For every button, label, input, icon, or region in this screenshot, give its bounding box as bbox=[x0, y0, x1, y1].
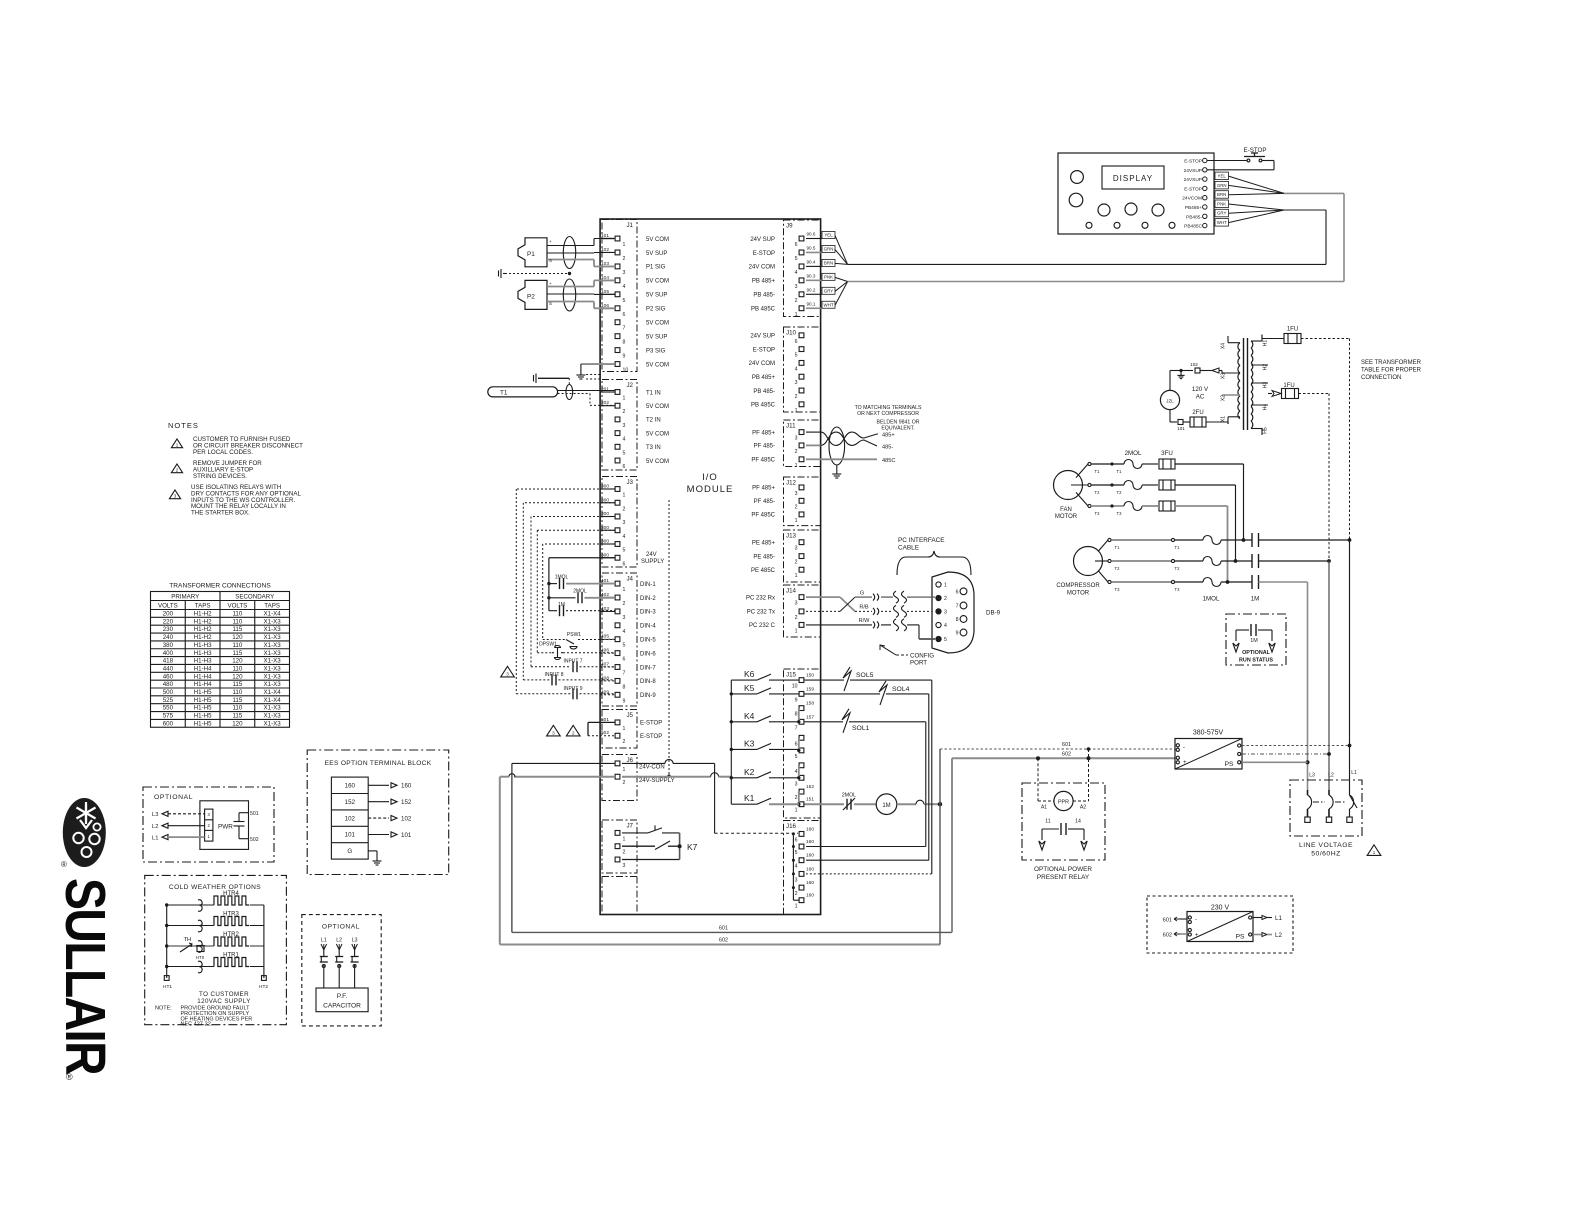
svg-text:115: 115 bbox=[232, 626, 242, 633]
compressor leads with 1MOL and 1M contacts bbox=[1095, 533, 1351, 603]
Sullair logo bbox=[53, 798, 117, 1082]
svg-text:H1-H2: H1-H2 bbox=[194, 626, 212, 633]
E-stop pushbutton bbox=[1207, 147, 1274, 170]
svg-text:3: 3 bbox=[795, 380, 798, 386]
matching terminals note bbox=[855, 405, 922, 432]
svg-text:J11: J11 bbox=[786, 423, 796, 430]
svg-text:MODULE: MODULE bbox=[687, 484, 734, 495]
svg-text:5V COM: 5V COM bbox=[646, 362, 669, 368]
connector J10 bbox=[784, 327, 821, 414]
aux contact 2MOL wire 402 bbox=[549, 589, 615, 604]
230V power supply box bbox=[1147, 896, 1293, 953]
wire 24V-CON from J6-1 to J16-6 bbox=[622, 759, 798, 833]
svg-text:10: 10 bbox=[792, 684, 798, 690]
svg-text:PB 485-: PB 485- bbox=[753, 389, 775, 395]
svg-text:3: 3 bbox=[795, 491, 798, 497]
svg-text:E-STOP: E-STOP bbox=[1184, 186, 1202, 192]
svg-text:PE 485-: PE 485- bbox=[753, 554, 775, 560]
svg-text:7: 7 bbox=[623, 326, 626, 332]
svg-text:J7: J7 bbox=[626, 823, 633, 830]
svg-text:3: 3 bbox=[795, 546, 798, 552]
svg-text:11: 11 bbox=[1045, 819, 1050, 825]
svg-text:3: 3 bbox=[623, 423, 626, 429]
svg-text:E-STOP: E-STOP bbox=[640, 721, 662, 727]
svg-text:T3: T3 bbox=[1095, 511, 1101, 516]
svg-text:K3: K3 bbox=[744, 738, 755, 748]
svg-text:CONNECTION: CONNECTION bbox=[1361, 375, 1401, 381]
svg-text:160: 160 bbox=[806, 826, 814, 832]
svg-text:DIN-8: DIN-8 bbox=[640, 679, 656, 685]
connector J2 bbox=[602, 380, 637, 471]
svg-text:T1: T1 bbox=[1175, 545, 1181, 550]
svg-text:H1-H2: H1-H2 bbox=[194, 618, 212, 625]
cold weather options box bbox=[145, 875, 287, 1027]
connector J16 bbox=[784, 821, 821, 915]
svg-text:H1-H4: H1-H4 bbox=[194, 681, 212, 688]
svg-text:®: ® bbox=[61, 860, 67, 869]
svg-text:GRN: GRN bbox=[824, 247, 834, 252]
svg-text:K2: K2 bbox=[744, 767, 755, 777]
svg-text:9: 9 bbox=[795, 697, 798, 703]
svg-text:PB 485-: PB 485- bbox=[753, 293, 775, 299]
svg-text:2: 2 bbox=[795, 615, 798, 621]
svg-text:FAN: FAN bbox=[1060, 507, 1072, 513]
svg-text:102: 102 bbox=[1190, 362, 1198, 367]
dash-dot continuation below J7 bbox=[602, 877, 637, 915]
svg-text:SEE TRANSFORMER: SEE TRANSFORMER bbox=[1361, 360, 1422, 366]
svg-text:PB 485+: PB 485+ bbox=[752, 279, 776, 285]
svg-text:J4: J4 bbox=[626, 576, 633, 583]
svg-text:502: 502 bbox=[601, 730, 609, 736]
svg-text:PRESENT RELAY: PRESENT RELAY bbox=[1037, 874, 1090, 881]
svg-text:L3: L3 bbox=[1309, 773, 1315, 779]
svg-text:115: 115 bbox=[232, 650, 242, 657]
solid branch J3 pin6 to motor aux contacts bbox=[547, 558, 615, 611]
svg-text:H2: H2 bbox=[1263, 364, 1269, 371]
svg-text:3: 3 bbox=[795, 877, 798, 883]
svg-text:2: 2 bbox=[623, 739, 626, 745]
optional power supply monitor box bbox=[143, 787, 274, 862]
svg-text:-: - bbox=[1195, 917, 1197, 923]
svg-text:PORT: PORT bbox=[910, 660, 927, 667]
svg-text:101: 101 bbox=[1177, 426, 1185, 431]
relay contact K6 bbox=[731, 669, 799, 680]
fan motor leads with 2MOL and 3FU bbox=[1071, 450, 1244, 582]
notes bbox=[168, 421, 303, 517]
svg-text:J12: J12 bbox=[786, 480, 797, 487]
connector J1 bbox=[602, 220, 637, 374]
PS output wires to line bbox=[1242, 746, 1350, 763]
svg-text:5V SUP: 5V SUP bbox=[646, 293, 667, 299]
optional power present relay box bbox=[1022, 749, 1105, 881]
svg-text:PNK: PNK bbox=[1217, 201, 1226, 206]
svg-text:1M: 1M bbox=[882, 803, 890, 809]
svg-text:J13: J13 bbox=[786, 533, 797, 540]
svg-text:24V: 24V bbox=[646, 552, 657, 558]
contactor coil circuit 2MOL + 1M wire 151 bbox=[805, 793, 943, 815]
svg-text:418: 418 bbox=[163, 658, 174, 665]
svg-text:1: 1 bbox=[944, 583, 947, 589]
svg-text:2: 2 bbox=[623, 506, 626, 512]
connector J15 bbox=[784, 669, 821, 818]
svg-text:PWR: PWR bbox=[218, 824, 233, 831]
svg-text:TAPS: TAPS bbox=[195, 602, 211, 609]
svg-text:5: 5 bbox=[623, 548, 626, 554]
svg-text:T1: T1 bbox=[1117, 469, 1123, 474]
svg-text:3: 3 bbox=[795, 601, 798, 607]
svg-text:SOL5: SOL5 bbox=[856, 672, 874, 679]
svg-text:H1-H4: H1-H4 bbox=[194, 673, 212, 680]
svg-text:4: 4 bbox=[795, 366, 798, 372]
svg-text:SOL4: SOL4 bbox=[892, 686, 910, 693]
svg-text:409: 409 bbox=[601, 689, 609, 695]
svg-text:X1-X3: X1-X3 bbox=[264, 720, 282, 727]
svg-text:T1: T1 bbox=[1115, 545, 1121, 550]
svg-text:380: 380 bbox=[163, 642, 174, 649]
J4 stubs bbox=[600, 578, 615, 695]
svg-text:380-575V: 380-575V bbox=[1193, 730, 1224, 737]
svg-text:K1: K1 bbox=[744, 793, 755, 803]
svg-text:2: 2 bbox=[795, 891, 798, 897]
svg-text:3: 3 bbox=[623, 270, 626, 276]
svg-text:PF 485C: PF 485C bbox=[751, 513, 775, 519]
svg-text:90.6: 90.6 bbox=[807, 232, 816, 237]
svg-text:TH: TH bbox=[184, 937, 192, 943]
svg-text:L1: L1 bbox=[1351, 770, 1357, 776]
svg-text:3: 3 bbox=[795, 436, 798, 442]
svg-text:PE 485+: PE 485+ bbox=[752, 541, 776, 547]
svg-text:L1: L1 bbox=[152, 835, 158, 841]
svg-text:TO CUSTOMER: TO CUSTOMER bbox=[199, 991, 249, 998]
svg-text:CABLE: CABLE bbox=[898, 545, 919, 552]
svg-text:8: 8 bbox=[956, 617, 959, 623]
svg-text:PNK: PNK bbox=[824, 275, 833, 280]
P2 wires bbox=[547, 280, 615, 308]
svg-text:T1 IN: T1 IN bbox=[646, 390, 661, 396]
svg-text:4: 4 bbox=[623, 284, 626, 290]
svg-text:8: 8 bbox=[623, 684, 626, 690]
relay contact rail bbox=[730, 680, 733, 804]
svg-text:PS: PS bbox=[1225, 761, 1234, 768]
svg-text:DIN-9: DIN-9 bbox=[640, 693, 656, 699]
wire 601 to power supply bbox=[940, 742, 1175, 804]
svg-text:240: 240 bbox=[163, 634, 174, 641]
svg-text:BRN: BRN bbox=[1217, 192, 1226, 197]
connector J9 bbox=[784, 220, 821, 318]
svg-text:6: 6 bbox=[795, 837, 798, 843]
svg-text:T2: T2 bbox=[1095, 490, 1101, 495]
svg-text:115: 115 bbox=[232, 681, 242, 688]
svg-text:110: 110 bbox=[232, 642, 242, 649]
svg-text:1: 1 bbox=[623, 836, 626, 842]
svg-text:X1-X3: X1-X3 bbox=[264, 642, 282, 649]
svg-text:K5: K5 bbox=[744, 683, 755, 693]
svg-text:160: 160 bbox=[806, 839, 814, 845]
J2 stubs 201 202 bbox=[600, 387, 615, 407]
svg-text:501: 501 bbox=[601, 717, 609, 723]
svg-text:NOTES: NOTES bbox=[168, 421, 199, 430]
T1 shield ground bbox=[534, 374, 570, 385]
svg-text:5: 5 bbox=[795, 256, 798, 262]
svg-text:I/O: I/O bbox=[702, 472, 718, 483]
svg-text:P2 SIG: P2 SIG bbox=[646, 307, 666, 313]
svg-text:+: + bbox=[549, 281, 552, 286]
temperature probe T1 bbox=[488, 385, 615, 406]
svg-text:5V COM: 5V COM bbox=[646, 237, 669, 243]
svg-text:J1: J1 bbox=[626, 222, 633, 229]
svg-text:110: 110 bbox=[232, 689, 242, 696]
svg-text:485+: 485+ bbox=[882, 433, 895, 439]
svg-text:H1-H5: H1-H5 bbox=[194, 705, 212, 712]
svg-text:3: 3 bbox=[944, 610, 947, 616]
svg-text:90.5: 90.5 bbox=[807, 246, 816, 251]
svg-text:157: 157 bbox=[806, 714, 814, 720]
svg-text:1: 1 bbox=[623, 767, 626, 773]
svg-text:PF 485C: PF 485C bbox=[751, 458, 775, 464]
svg-text:220: 220 bbox=[163, 618, 174, 625]
svg-text:24VSUP: 24VSUP bbox=[1184, 177, 1202, 183]
svg-text:H1-H3: H1-H3 bbox=[194, 650, 212, 657]
svg-text:5: 5 bbox=[795, 850, 798, 856]
svg-text:CAPACITOR: CAPACITOR bbox=[323, 1003, 361, 1010]
svg-text:L1: L1 bbox=[1275, 915, 1282, 922]
svg-text:X1-X3: X1-X3 bbox=[264, 618, 282, 625]
svg-text:601: 601 bbox=[1163, 918, 1172, 924]
connector J4 bbox=[602, 573, 637, 706]
svg-text:THE STARTER BOX.: THE STARTER BOX. bbox=[191, 510, 250, 517]
svg-text:501: 501 bbox=[250, 811, 259, 817]
svg-text:GRY: GRY bbox=[1217, 211, 1227, 216]
svg-text:MOTOR: MOTOR bbox=[1055, 514, 1078, 520]
svg-text:L2: L2 bbox=[336, 938, 342, 944]
svg-text:158: 158 bbox=[806, 701, 814, 707]
svg-text:150: 150 bbox=[806, 673, 814, 679]
svg-text:L3: L3 bbox=[352, 938, 358, 944]
note triangle 3 bbox=[501, 666, 515, 677]
svg-text:PF 485+: PF 485+ bbox=[752, 430, 775, 436]
svg-text:H1-H5: H1-H5 bbox=[194, 713, 212, 720]
svg-text:102: 102 bbox=[401, 815, 412, 822]
svg-text:SUPPLY: SUPPLY bbox=[641, 559, 664, 565]
svg-text:3: 3 bbox=[795, 781, 798, 787]
svg-text:4: 4 bbox=[795, 270, 798, 276]
svg-text:440: 440 bbox=[163, 665, 174, 672]
compressor motor bbox=[1056, 547, 1102, 597]
svg-text:T3: T3 bbox=[1175, 587, 1181, 592]
svg-text:PB 485+: PB 485+ bbox=[752, 375, 776, 381]
svg-text:5V COM: 5V COM bbox=[646, 321, 669, 327]
svg-text:1FU: 1FU bbox=[1287, 327, 1298, 333]
svg-text:X1-X3: X1-X3 bbox=[264, 665, 282, 672]
svg-text:DB-9: DB-9 bbox=[986, 610, 1001, 617]
svg-text:1M: 1M bbox=[1251, 596, 1260, 603]
SOL return verticals to J16 bbox=[806, 680, 932, 874]
svg-text:4: 4 bbox=[795, 864, 798, 870]
svg-text:101: 101 bbox=[401, 832, 412, 839]
svg-text:230: 230 bbox=[163, 626, 174, 633]
pressure switch PSW1 wire 405 bbox=[543, 632, 615, 649]
svg-text:TRANSFORMER CONNECTIONS: TRANSFORMER CONNECTIONS bbox=[169, 583, 271, 590]
svg-text:1: 1 bbox=[795, 518, 798, 524]
svg-text:6: 6 bbox=[623, 561, 626, 567]
svg-text:DIN-6: DIN-6 bbox=[640, 651, 656, 657]
svg-text:DIN-4: DIN-4 bbox=[640, 624, 656, 630]
svg-text:-: - bbox=[1183, 745, 1185, 751]
svg-text:K7: K7 bbox=[687, 842, 698, 852]
svg-text:X3: X3 bbox=[1221, 373, 1227, 379]
svg-text:E-STOP: E-STOP bbox=[640, 734, 662, 740]
svg-text:5: 5 bbox=[795, 754, 798, 760]
svg-text:6: 6 bbox=[795, 741, 798, 747]
svg-text:P1: P1 bbox=[527, 251, 535, 258]
svg-text:T2: T2 bbox=[1175, 566, 1181, 571]
svg-text:115: 115 bbox=[232, 697, 242, 704]
J14 config port wires bbox=[806, 591, 935, 640]
svg-text:VOLTS: VOLTS bbox=[227, 602, 247, 609]
svg-text:525: 525 bbox=[163, 697, 174, 704]
svg-text:24V SUP: 24V SUP bbox=[750, 334, 775, 340]
svg-text:4: 4 bbox=[944, 623, 947, 629]
svg-text:1: 1 bbox=[623, 726, 626, 732]
svg-text:K6: K6 bbox=[744, 669, 755, 679]
svg-text:7: 7 bbox=[795, 725, 798, 731]
svg-text:24V SUP: 24V SUP bbox=[750, 237, 775, 243]
svg-text:9: 9 bbox=[956, 631, 959, 637]
svg-text:H1: H1 bbox=[1263, 340, 1269, 347]
svg-text:5: 5 bbox=[623, 643, 626, 649]
dotted 24V line inside module bbox=[667, 500, 670, 778]
svg-text:OPTIONAL: OPTIONAL bbox=[1242, 650, 1271, 656]
svg-text:2MOL: 2MOL bbox=[573, 589, 587, 595]
svg-text:DIN-1: DIN-1 bbox=[640, 582, 656, 588]
svg-text:OPTIONAL POWER: OPTIONAL POWER bbox=[1034, 866, 1092, 873]
svg-text:P1 SIG: P1 SIG bbox=[646, 265, 666, 271]
svg-text:1: 1 bbox=[795, 904, 798, 910]
svg-text:6: 6 bbox=[623, 657, 626, 663]
svg-text:DISPLAY: DISPLAY bbox=[1113, 174, 1153, 183]
display terminal labels bbox=[1182, 158, 1207, 229]
svg-text:L2: L2 bbox=[1275, 932, 1282, 939]
svg-text:5V COM: 5V COM bbox=[646, 459, 669, 465]
svg-text:2: 2 bbox=[623, 780, 626, 786]
svg-text:T2: T2 bbox=[1117, 490, 1123, 495]
input 7 contact wire 407 bbox=[531, 659, 615, 673]
config port label bbox=[880, 645, 934, 667]
svg-text:3FU: 3FU bbox=[1161, 450, 1173, 457]
svg-text:H3: H3 bbox=[1263, 382, 1269, 389]
svg-text:SECONDARY: SECONDARY bbox=[235, 593, 274, 600]
svg-text:VOLTS: VOLTS bbox=[158, 602, 178, 609]
svg-text:TAPS: TAPS bbox=[264, 602, 280, 609]
svg-text:4: 4 bbox=[623, 437, 626, 443]
svg-text:T2 IN: T2 IN bbox=[646, 418, 661, 424]
svg-text:A2: A2 bbox=[1080, 805, 1086, 811]
svg-text:J9: J9 bbox=[786, 223, 793, 230]
svg-text:H1-H2: H1-H2 bbox=[194, 611, 212, 618]
svg-text:500: 500 bbox=[163, 689, 174, 696]
svg-text:CONFIG: CONFIG bbox=[910, 653, 934, 660]
connector J6 bbox=[602, 755, 637, 801]
svg-text:OR NEXT COMPRESSOR: OR NEXT COMPRESSOR bbox=[857, 411, 919, 417]
svg-text:1MOL: 1MOL bbox=[1203, 596, 1220, 603]
svg-text:485-: 485- bbox=[882, 445, 893, 451]
svg-text:90.3: 90.3 bbox=[807, 274, 816, 279]
svg-text:H1-H5: H1-H5 bbox=[194, 689, 212, 696]
svg-text:7: 7 bbox=[623, 671, 626, 677]
svg-text:A1: A1 bbox=[1041, 805, 1047, 811]
svg-text:PF 485+: PF 485+ bbox=[752, 486, 775, 492]
display wire color boxes bbox=[1215, 172, 1344, 226]
solenoid SOL5 wire 150 bbox=[805, 667, 932, 691]
P1 wires bbox=[547, 239, 615, 267]
connector J7 bbox=[602, 820, 637, 873]
svg-text:AC: AC bbox=[1196, 394, 1205, 401]
svg-text:PB485-: PB485- bbox=[1186, 214, 1202, 220]
J9 display cable fan-out bbox=[806, 232, 848, 309]
svg-text:2MOL: 2MOL bbox=[1125, 450, 1142, 457]
svg-text:PSW1: PSW1 bbox=[567, 632, 581, 638]
J11 twisted pair to next compressor bbox=[806, 427, 895, 478]
control transformer T bbox=[1221, 335, 1269, 436]
svg-text:480: 480 bbox=[163, 681, 174, 688]
svg-text:HT0: HT0 bbox=[196, 955, 205, 960]
svg-text:PB485+: PB485+ bbox=[1185, 205, 1202, 211]
svg-text:485C: 485C bbox=[882, 458, 895, 464]
svg-text:120 V: 120 V bbox=[1192, 386, 1209, 393]
svg-text:160: 160 bbox=[401, 783, 412, 790]
svg-text:2MOL: 2MOL bbox=[842, 793, 856, 799]
relay contact K3 bbox=[731, 738, 799, 749]
svg-text:X1-X4: X1-X4 bbox=[264, 697, 282, 704]
svg-text:1MOL: 1MOL bbox=[555, 575, 569, 581]
svg-text:4: 4 bbox=[795, 769, 798, 775]
svg-text:X4: X4 bbox=[1221, 343, 1227, 349]
svg-text:J5: J5 bbox=[626, 712, 633, 719]
EES option terminal block bbox=[307, 750, 449, 875]
svg-text:24VCOM: 24VCOM bbox=[1182, 196, 1202, 202]
svg-text:J15: J15 bbox=[786, 672, 797, 679]
svg-text:102: 102 bbox=[345, 815, 356, 822]
svg-text:J14: J14 bbox=[786, 588, 797, 595]
transformer note bbox=[1361, 360, 1422, 381]
svg-text:400: 400 bbox=[163, 650, 174, 657]
svg-text:OPTIONAL: OPTIONAL bbox=[322, 924, 360, 931]
svg-text:DIN-2: DIN-2 bbox=[640, 596, 656, 602]
svg-text:120: 120 bbox=[232, 658, 243, 665]
svg-text:L3: L3 bbox=[152, 812, 158, 818]
connector J5 bbox=[602, 710, 637, 749]
shield ground between P1 P2 bbox=[499, 269, 572, 278]
svg-text:E-STOP: E-STOP bbox=[1184, 159, 1202, 165]
svg-text:MOTOR: MOTOR bbox=[1067, 591, 1090, 597]
svg-text:COMPRESSOR: COMPRESSOR bbox=[1056, 583, 1100, 589]
fan motor bbox=[1054, 471, 1083, 521]
svg-text:230 V: 230 V bbox=[1211, 905, 1230, 912]
svg-text:160: 160 bbox=[345, 783, 356, 790]
svg-text:602: 602 bbox=[719, 938, 728, 944]
svg-text:HT1: HT1 bbox=[163, 984, 172, 990]
I/O module outline bbox=[600, 219, 821, 915]
svg-text:152: 152 bbox=[401, 799, 412, 806]
relay contact K2 bbox=[731, 767, 799, 778]
svg-text:J3: J3 bbox=[626, 479, 633, 486]
svg-text:1: 1 bbox=[795, 408, 798, 414]
svg-text:X1-X3: X1-X3 bbox=[264, 650, 282, 657]
three-phase verticals to line voltage bbox=[1305, 540, 1351, 790]
svg-text:602: 602 bbox=[1062, 752, 1071, 758]
svg-text:H1-H3: H1-H3 bbox=[194, 658, 212, 665]
svg-text:3: 3 bbox=[795, 284, 798, 290]
